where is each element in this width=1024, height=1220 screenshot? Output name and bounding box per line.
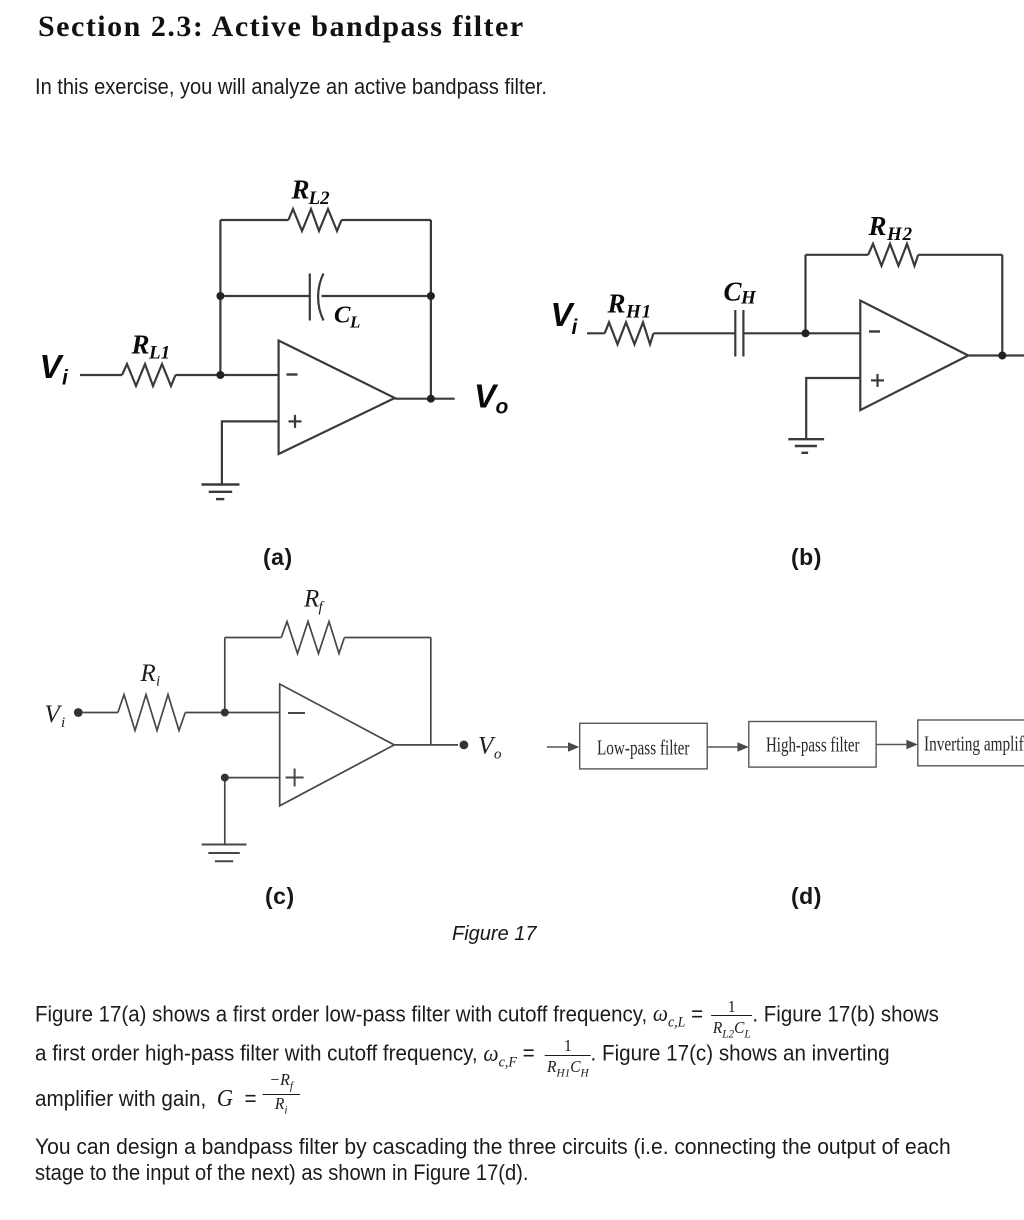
wire top feedback right (a)	[342, 219, 431, 221]
section heading	[38, 10, 525, 44]
wire capacitor branch left (a)	[220, 295, 309, 297]
label Vo (a)	[474, 377, 509, 418]
node inverting input junction (a)	[216, 371, 224, 379]
paragraph 2 line 2	[35, 1160, 528, 1186]
label Vi (a)	[40, 348, 70, 390]
svg-text:R: R	[131, 330, 150, 360]
intro sentence	[35, 74, 547, 100]
node inverting input junction (b)	[802, 329, 810, 337]
wire inverting node up to feedback branches (a)	[219, 220, 221, 375]
svg-text:i: i	[156, 674, 160, 690]
label CL	[334, 301, 360, 331]
caption (d)	[791, 883, 822, 910]
label Vo (c)	[478, 733, 502, 763]
resistor Ri	[118, 695, 185, 731]
node source terminal dot (c)	[74, 708, 83, 717]
svg-text:L1: L1	[148, 343, 170, 364]
svg-text:i: i	[572, 316, 579, 339]
label Vi (b)	[551, 296, 579, 339]
svg-text:R: R	[291, 175, 310, 205]
block low-pass filter box	[580, 723, 708, 769]
pin non-inverting input marker U1	[289, 415, 302, 428]
svg-text:R: R	[140, 660, 156, 687]
svg-text:H2: H2	[886, 224, 913, 245]
wire non-inverting input to ground (b)	[806, 378, 860, 439]
capacitor CL	[310, 274, 324, 321]
svg-text:L: L	[349, 313, 360, 332]
ground (c)	[202, 845, 247, 862]
label RL2	[291, 175, 331, 209]
svg-text:f: f	[319, 600, 325, 616]
svg-text:R: R	[868, 211, 887, 241]
ground (a)	[201, 485, 239, 500]
wire non-inverting input to ground (c)	[225, 778, 280, 844]
block inverting amplifier box	[918, 720, 1024, 766]
resistor Rf	[281, 622, 344, 654]
wire top feedback left (a)	[220, 219, 288, 221]
svg-text:Low-pass filter: Low-pass filter	[597, 736, 690, 760]
wire inverting node up to feedback (c)	[224, 638, 226, 713]
svg-text:o: o	[496, 396, 509, 419]
label Rf	[303, 586, 325, 616]
wire input arrow (d)	[547, 742, 580, 752]
wire top feedback right (c)	[344, 637, 430, 639]
caption (a)	[263, 544, 293, 571]
node capacitor left junction (a)	[216, 292, 224, 300]
label CH	[724, 277, 758, 309]
wire Vi to Ri (c)	[83, 712, 118, 714]
node capacitor right junction (a)	[427, 292, 435, 300]
wire output (a)	[395, 398, 455, 400]
resistor RL1	[122, 364, 176, 386]
op-amp U1	[279, 341, 395, 455]
node non-inverting junction (c)	[221, 774, 229, 782]
wire top feedback left (b)	[806, 254, 869, 256]
wire Vi to RH1 (b)	[587, 332, 605, 334]
paragraph 2 line 1	[35, 1134, 951, 1160]
pin non-inverting input marker U3	[286, 769, 304, 787]
pin non-inverting input marker U2	[871, 374, 884, 387]
wire Ri to op-amp inverting input (c)	[185, 712, 279, 714]
wire arrow box2 to box3 (d)	[876, 740, 918, 750]
caption (b)	[791, 544, 822, 571]
label RH2	[868, 211, 913, 245]
paragraph line 2	[35, 1038, 890, 1081]
paragraph line 1	[35, 999, 939, 1042]
wire inverting node up to feedback (b)	[804, 255, 806, 333]
resistor RH2	[868, 244, 918, 266]
svg-text:o: o	[494, 747, 502, 763]
svg-text:R: R	[303, 586, 319, 613]
node output junction (b)	[998, 352, 1006, 360]
wire RL1 to op-amp inverting input (a)	[176, 374, 279, 376]
node output terminal dot (c)	[460, 741, 469, 750]
wire Vi to RL1 (a)	[80, 374, 122, 376]
svg-text:H1: H1	[625, 302, 652, 323]
ground (b)	[788, 439, 824, 453]
svg-text:L2: L2	[308, 188, 331, 209]
wire output (c)	[394, 744, 458, 746]
label RH1	[607, 289, 652, 323]
resistor RL2	[288, 209, 341, 231]
wire RH1 to CH (b)	[654, 332, 736, 334]
wire arrow box1 to box2 (d)	[707, 742, 749, 752]
svg-text:i: i	[61, 715, 65, 731]
label Vi (c)	[45, 701, 66, 731]
svg-text:R: R	[607, 289, 626, 319]
paragraph line 3	[35, 1072, 300, 1117]
resistor RH1	[605, 322, 654, 344]
capacitor CH	[735, 310, 743, 357]
wire CH to op-amp inverting input (b)	[743, 332, 860, 334]
svg-text:C: C	[724, 277, 743, 307]
pin inverting input marker U3	[288, 712, 305, 714]
label Ri	[140, 660, 161, 690]
svg-text:V: V	[45, 701, 63, 728]
wire feedback down to output node (a)	[430, 220, 432, 399]
wire non-inverting input to ground (a)	[222, 421, 279, 484]
wire top feedback right (b)	[918, 254, 1002, 256]
svg-text:i: i	[62, 367, 69, 390]
pin inverting input marker U2	[869, 330, 880, 332]
svg-text:C: C	[334, 301, 351, 328]
op-amp U3	[280, 684, 395, 806]
wire output (b)	[968, 354, 1024, 356]
node output junction (a)	[427, 395, 435, 403]
svg-text:Inverting amplifi: Inverting amplifi	[924, 732, 1024, 756]
wire feedback down to output (c)	[430, 638, 432, 745]
block high-pass filter box	[749, 722, 876, 768]
op-amp U2	[860, 301, 968, 411]
pin inverting input marker U1	[287, 373, 298, 375]
wire feedback down to output node (b)	[1001, 255, 1003, 356]
node inverting input junction (c)	[221, 709, 229, 717]
label RL1	[131, 330, 171, 364]
svg-text:High-pass filter: High-pass filter	[766, 733, 860, 757]
figure caption	[452, 923, 537, 946]
wire capacitor branch right (a)	[322, 295, 431, 297]
wire top feedback left (c)	[225, 637, 281, 639]
caption (c)	[265, 883, 295, 910]
svg-text:V: V	[40, 348, 65, 385]
svg-text:H: H	[740, 288, 757, 309]
